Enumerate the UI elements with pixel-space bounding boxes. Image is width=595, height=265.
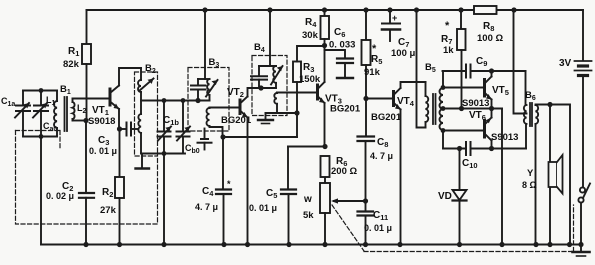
dashed box tuning gang section bbox=[16, 131, 158, 225]
transistor VT3 BG201 bbox=[318, 82, 325, 103]
svg-text:200 Ω: 200 Ω bbox=[331, 166, 357, 177]
transformer B3 dashed box bbox=[188, 68, 229, 132]
wire B6 secondary bottom to rail bbox=[535, 124, 537, 245]
wire VT3 emitter bbox=[324, 103, 326, 147]
node R3 base junction bbox=[294, 110, 299, 115]
resistor R3 150k bbox=[293, 46, 325, 113]
speaker Y 8ohm bbox=[549, 155, 563, 194]
svg-text:VD: VD bbox=[438, 191, 452, 202]
transformer B1 core bbox=[65, 97, 68, 131]
inductor B3 secondary bbox=[207, 108, 223, 138]
svg-text:0. 01 μ: 0. 01 μ bbox=[364, 223, 392, 233]
resistor R7 1k bbox=[457, 10, 466, 109]
B2 adjustable core arrow bbox=[139, 79, 154, 92]
svg-text:0. 02 μ: 0. 02 μ bbox=[46, 191, 74, 201]
svg-text:S9013: S9013 bbox=[462, 98, 489, 109]
resistor R5 91k bbox=[362, 10, 371, 99]
node B5 mid dots bbox=[441, 106, 495, 111]
wire B4 secondary top to VT3 base bbox=[277, 92, 318, 94]
node B4 bottom dot bbox=[258, 85, 263, 90]
svg-text:4. 7 μ: 4. 7 μ bbox=[370, 151, 393, 161]
wire VT4 emitter to rail bbox=[400, 110, 402, 245]
resistor R8 100ohm bbox=[474, 6, 497, 14]
inductor B4 primary bbox=[273, 66, 276, 88]
node VT5 collector junction bbox=[489, 68, 494, 73]
node top rail junction dots bbox=[202, 7, 516, 12]
wire antenna tank loop bbox=[23, 91, 57, 245]
svg-text:4. 7 μ: 4. 7 μ bbox=[195, 202, 218, 212]
svg-text:8 Ω: 8 Ω bbox=[522, 180, 537, 190]
capacitor C2 0.02u bbox=[79, 121, 94, 245]
wire VT4 collector to B5 primary top bbox=[401, 82, 426, 88]
svg-text:91k: 91k bbox=[364, 67, 381, 78]
svg-text:+: + bbox=[392, 13, 397, 23]
wire B6 center tap feed bbox=[514, 10, 527, 114]
battery 3V bbox=[575, 10, 592, 188]
resistor R2 27k bbox=[115, 129, 124, 245]
svg-text:27k: 27k bbox=[100, 205, 117, 216]
B4 adjustable core arrow bbox=[271, 66, 283, 85]
capacitor C1a variable bbox=[15, 91, 30, 137]
wire speaker left bbox=[549, 105, 551, 245]
capacitor B4 tank cap bbox=[251, 66, 276, 88]
ground B4 bbox=[258, 120, 273, 124]
wire B5 secondary bottom to VT6 base bbox=[443, 130, 485, 132]
wire VT5 collector bbox=[491, 71, 493, 77]
node R4 bottom junction bbox=[322, 43, 327, 48]
capacitor C11 0.01u bbox=[358, 201, 374, 245]
transformer B2 oscillator coil dashed box bbox=[135, 72, 158, 156]
diode VD bbox=[453, 149, 467, 245]
inductor B5 secondary bbox=[440, 88, 443, 130]
transistor VT6 S9013 bbox=[485, 118, 492, 141]
node tank loop dots bbox=[39, 88, 44, 139]
capacitor C6 0.033 bbox=[325, 50, 354, 78]
transformer B4 dashed box bbox=[252, 56, 287, 116]
wire B4 secondary bottom bbox=[266, 113, 298, 137]
capacitor C5 0.01u bbox=[281, 147, 296, 245]
wire VT2 collector to B4 bbox=[248, 88, 260, 97]
wire VT1 collector to B2 bbox=[119, 68, 141, 86]
svg-text:Y: Y bbox=[527, 168, 534, 179]
svg-text:*: * bbox=[227, 179, 231, 189]
capacitor C10 bbox=[443, 142, 526, 155]
svg-text:0. 01 μ: 0. 01 μ bbox=[89, 146, 117, 156]
resistor R4 30k bbox=[321, 10, 330, 46]
wire VT6 emitter bbox=[491, 141, 493, 149]
svg-text:BG201: BG201 bbox=[371, 112, 402, 123]
B3 adjustable core arrow bbox=[206, 80, 218, 97]
svg-text:150k: 150k bbox=[299, 74, 321, 85]
svg-text:100 Ω: 100 Ω bbox=[477, 33, 503, 44]
wire B3 feed from rail bbox=[204, 10, 206, 79]
wire B5 supply feed bbox=[417, 10, 426, 128]
capacitor B3 tank cap bbox=[191, 79, 210, 101]
wire oscillator tank bottom bbox=[141, 153, 185, 155]
node C10 junction dots bbox=[457, 146, 494, 151]
transformer B6 core bbox=[530, 103, 532, 126]
ground oscillator tank bbox=[136, 154, 150, 169]
wire B5 secondary mid tap bbox=[443, 108, 502, 110]
transistor VT1 S9018 bbox=[110, 86, 119, 110]
svg-text:30k: 30k bbox=[302, 30, 319, 41]
ground C6 bbox=[337, 77, 353, 79]
wire VT4 base bbox=[366, 98, 394, 100]
svg-text:S9018: S9018 bbox=[88, 116, 115, 127]
inductor B6 secondary bbox=[536, 105, 539, 124]
transistor VT2 BG201 bbox=[240, 97, 248, 118]
wire B4 bottom bbox=[259, 87, 276, 89]
switch K bbox=[578, 184, 590, 245]
capacitor Cb0 trimmer bbox=[198, 129, 212, 150]
node B5 secondary bottom dot bbox=[441, 128, 446, 133]
inductor L1 primary of B1 bbox=[54, 91, 57, 137]
inductor B6 primary bbox=[524, 71, 527, 149]
capacitor Ca0 trimmer bbox=[33, 91, 48, 137]
svg-text:0. 01 μ: 0. 01 μ bbox=[249, 203, 277, 213]
wire tank to ground rail bbox=[163, 154, 165, 245]
node VT1 base bias junction bbox=[83, 118, 88, 123]
svg-text:5k: 5k bbox=[303, 210, 314, 221]
wire B4 feed from rail bbox=[269, 10, 271, 66]
transformer B5 core bbox=[433, 94, 436, 124]
wire B6 secondary top to speaker bbox=[536, 105, 571, 245]
wire VT6 collector bbox=[491, 109, 493, 118]
svg-text:1k: 1k bbox=[443, 45, 454, 56]
wire VT3 emitter node bbox=[288, 146, 325, 148]
inductor B2 tickler winding bbox=[138, 68, 141, 101]
node bottom rail junction dots bbox=[83, 242, 583, 247]
svg-text:3V: 3V bbox=[559, 58, 572, 69]
capacitor C3 0.01u bbox=[120, 123, 139, 136]
wire B3 secondary to VT2 base bbox=[210, 107, 241, 109]
wire L2 to VT1 base bbox=[73, 98, 111, 100]
svg-text:100 μ: 100 μ bbox=[391, 48, 415, 59]
capacitor C8 4.7u bbox=[358, 99, 375, 202]
capacitor C4 4.7u electrolytic bbox=[216, 137, 231, 245]
svg-text:*: * bbox=[445, 20, 450, 32]
resistor R1 82k bbox=[82, 10, 91, 121]
node tank top dots bbox=[162, 98, 201, 103]
resistor R6 200ohm bbox=[321, 156, 330, 183]
wire output node to rail bbox=[501, 109, 503, 245]
dashed mechanical link volume switch bbox=[332, 205, 574, 252]
potentiometer W 5k bbox=[320, 183, 366, 245]
inductor B3 primary bbox=[207, 79, 209, 101]
svg-text:w: w bbox=[303, 194, 312, 205]
node VT3 emitter junction dot bbox=[322, 144, 327, 149]
wire oscillator tank top bbox=[141, 100, 210, 102]
wire VT5 emitter bbox=[491, 100, 493, 109]
wire detector line bbox=[223, 136, 298, 138]
capacitor C7 100u electrolytic bbox=[382, 10, 400, 41]
inductor B2 tank winding bbox=[138, 101, 141, 154]
svg-text:BG201: BG201 bbox=[330, 104, 361, 115]
node wiper junction bbox=[363, 198, 368, 203]
wire VT1 emitter down bbox=[118, 109, 120, 129]
node VT1 emitter junction bbox=[117, 126, 122, 131]
svg-text:0. 033: 0. 033 bbox=[329, 40, 355, 51]
node detector wire dot bbox=[220, 134, 225, 139]
capacitor C1b variable section 2 bbox=[177, 101, 191, 154]
wire VT3 collector bbox=[324, 46, 326, 83]
transistor VT4 BG201 bbox=[394, 88, 401, 110]
ground battery negative bbox=[573, 245, 590, 257]
inductor L2 secondary of B1 bbox=[73, 99, 87, 121]
node speaker feed dot bbox=[547, 102, 552, 107]
wire bottom ground rail bbox=[41, 244, 581, 246]
wire VT2 emitter to rail bbox=[247, 118, 249, 245]
wire top supply rail bbox=[87, 9, 584, 11]
capacitor C1b variable section 1 bbox=[158, 101, 172, 154]
svg-text:S9013: S9013 bbox=[491, 132, 518, 143]
capacitor C9 bbox=[443, 65, 526, 78]
node tank bottom dot bbox=[162, 151, 167, 156]
transistor VT5 S9013 bbox=[485, 77, 492, 100]
inductor B5 primary bbox=[426, 82, 429, 128]
wire B5 secondary top to C9 and VT5 base bbox=[442, 71, 444, 88]
wire B5 bottom to C10 bbox=[442, 131, 444, 149]
inductor B4 secondary bbox=[274, 93, 277, 114]
node R5 bottom junction bbox=[363, 96, 368, 101]
svg-text:82k: 82k bbox=[63, 59, 80, 70]
node B5 secondary top dot bbox=[441, 85, 446, 90]
